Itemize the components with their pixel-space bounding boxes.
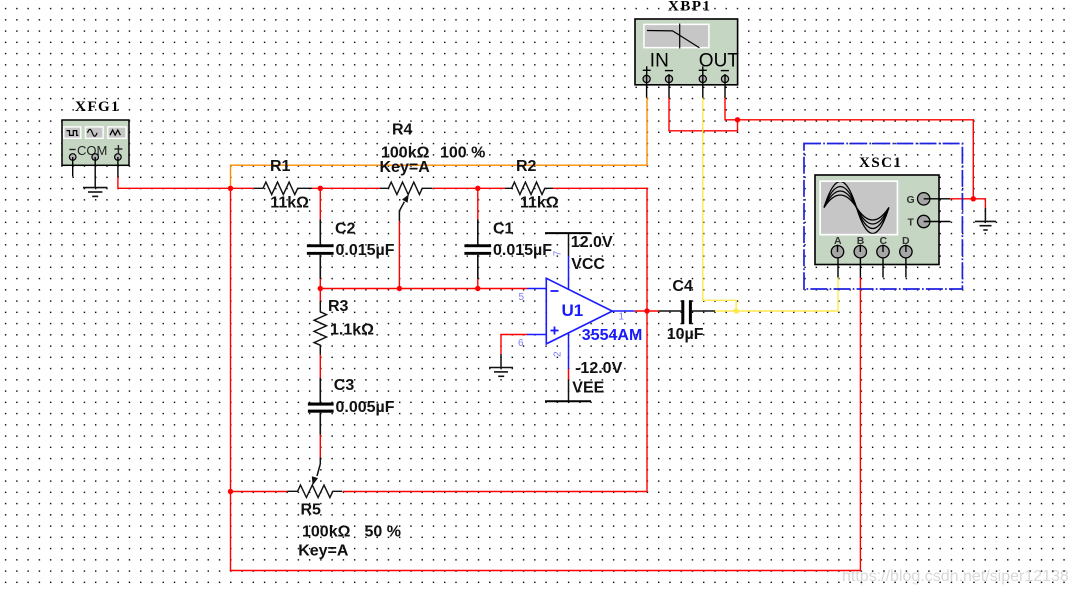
op-amp pin 1 output lead (blue) [612,310,634,312]
potentiometer R4 body [380,182,433,194]
potentiometer R5 body [287,485,342,497]
svg-text:5: 5 [519,292,525,303]
op-amp pin 7 VCC lead [568,233,570,290]
svg-text:Key=A: Key=A [380,159,431,176]
junction R1/C2 [318,186,323,191]
wire: R1 to R4 (red) [312,187,381,189]
wire: C2 bottom to mid row (red) [319,278,321,288]
svg-text:T: T [908,217,915,229]
svg-text:0.005µF: 0.005µF [336,399,395,416]
XFG1 + pin stub [117,157,119,177]
svg-text:-12.0V: -12.0V [575,360,622,377]
svg-text:R1: R1 [270,158,291,175]
junction XBP1 IN-/OUT- [735,117,740,122]
svg-text:R5: R5 [301,502,322,519]
svg-text:C2: C2 [335,221,356,238]
svg-text:6: 6 [518,338,524,349]
resistor R3 [314,301,326,355]
svg-text:1.1kΩ: 1.1kΩ [330,322,374,339]
XSC1 D pin stub [905,258,907,278]
svg-text:C4: C4 [672,278,693,295]
wire: XBP1 IN- down and over (red) [669,98,738,131]
wire: mid row to op-amp pin 5 (red) [320,288,527,290]
VCC supply bar [545,232,591,234]
svg-text:10µF: 10µF [667,326,704,343]
wire: C2 top lead from top row (red) [319,188,321,220]
wire: XFG1 + output to node A junction (red) [118,177,231,189]
capacitor C1 [464,220,491,279]
svg-text:50 %: 50 % [365,524,401,541]
XSC1 B pin stub [859,258,861,278]
XSC1 T terminal [908,215,951,228]
op-amp pin 2 VEE lead [568,333,570,402]
svg-text:11kΩ: 11kΩ [270,195,309,212]
XBP1 terminals [643,75,729,82]
svg-text:R2: R2 [516,158,537,175]
svg-text:VEE: VEE [572,380,604,397]
XSC1 channel terminals A B C D [831,235,912,258]
wire: XBP1 OUT- down, right to XSC1 G junction (red) [725,98,973,199]
wire: R4 wiper to mid row (red) [398,221,400,289]
capacitor C2 [307,220,334,279]
wire: R2 to right column (red) [553,187,648,189]
svg-text:XSC1: XSC1 [859,155,903,171]
wire: R3 bottom to C3 top (red) [319,355,321,379]
capacitor C3 [308,378,334,435]
op-amp inverting input mark [551,290,559,292]
svg-text:3554AM: 3554AM [582,327,642,344]
svg-text:VCC: VCC [571,256,605,273]
wire: bottom row to XSC1 B channel (red) [230,277,861,571]
op-amp U1 triangle [546,278,612,344]
op-amp pin 6 lead (blue) [527,334,546,336]
svg-text:C3: C3 [334,377,355,394]
junction yellow C4/XBP1 OUT+ [734,308,739,313]
junction R5 left [228,489,233,494]
svg-text:11kΩ: 11kΩ [520,195,559,212]
XFG1 - pin stub [72,157,74,177]
svg-text:C1: C1 [493,221,514,238]
wire: R5 right lead to right column (red) [343,491,647,493]
svg-text:2: 2 [553,351,564,357]
svg-text:100 %: 100 % [440,145,485,162]
op-amp pin 5 lead (blue) [527,288,546,290]
wire: XSC1 G terminal to ground junction (red) [950,199,985,209]
junction C1 mid row [475,286,480,291]
resistor R1 [254,182,312,194]
oscilloscope XSC1 body [815,175,939,265]
wire: R5 left lead to left column (red) [231,491,288,493]
function generator XFG1 body [62,120,129,165]
svg-text:0.015µF: 0.015µF [336,242,395,259]
svg-text:R4: R4 [392,122,413,139]
svg-text:1: 1 [619,312,625,323]
wire: yellow C4 right to XSC1 A channel [715,277,839,311]
resistor R2 [505,182,553,194]
junction op-amp output [644,308,649,313]
XSC1 C pin stub [882,258,884,278]
junction R4 wiper mid row [397,286,402,291]
ground below XFG1 COM [83,188,107,197]
svg-text:C: C [880,235,888,247]
junction XSC1 G/ground [971,196,976,201]
XSC1 A pin stub [837,258,839,278]
wire: C1 top lead from top row (red) [477,188,479,220]
svg-text:100kΩ: 100kΩ [302,524,351,541]
XFG1 terminals [69,154,121,161]
junction C2/R3 mid row [318,286,323,291]
svg-text:IN: IN [650,50,669,71]
potentiometer R4 wiper arrow [399,194,408,221]
capacitor C4 [659,300,715,324]
junction node A (input) [228,186,233,191]
oscilloscope XSC1 selection box (dashed) [804,144,962,290]
potentiometer R5 wiper arrow [312,458,321,486]
svg-text:B: B [857,235,865,247]
XFG1 COM pin stub [94,157,96,188]
ground at XSC1 G terminal [975,208,996,230]
wire: mid row below junction to R3 top (red) [319,289,321,301]
XSC1 screen waveforms [824,181,889,233]
svg-text:OUT: OUT [699,50,740,71]
wire: yellow XBP1 OUT+ down to output row [703,98,736,312]
junction R4/C1/R2 [475,186,480,191]
svg-text:D: D [902,235,910,247]
op-amp non-inverting input mark [551,327,559,335]
svg-text:XBP1: XBP1 [668,0,712,15]
svg-text:U1: U1 [562,301,584,320]
XFG1 COM text and polarity marks [69,143,122,158]
XBP1 IN OUT text [650,50,740,71]
XBP1 pin stubs [647,74,725,98]
XSC1 G terminal [907,193,951,206]
svg-text:A: A [834,235,842,247]
wire: op-amp pin 6 to ground (red) [501,335,527,355]
svg-text:7: 7 [552,250,563,256]
wire: right column vertical, top row to R5 row (red) [646,188,648,492]
svg-text:12.0V: 12.0V [571,234,613,251]
wire: C3 bottom lead to R5 wiper (red) [319,434,321,458]
wire: orange from node A up and across to XBP1 IN+ [231,98,648,189]
ground below op-amp pin 6 [489,354,513,376]
wire: C1 bottom to mid row (red) [477,278,479,288]
svg-text:0.015µF: 0.015µF [493,242,552,259]
wire: top row node A to R1 (red) [231,187,255,189]
Bode plotter XBP1 body [635,19,738,85]
svg-text:R3: R3 [328,298,349,315]
wire: op-amp output to C4 (red) [635,310,659,312]
svg-text:XFG1: XFG1 [75,99,120,115]
wire: R4 to R2 (red) [433,187,505,189]
VEE supply bar [545,400,591,402]
svg-text:G: G [907,194,915,206]
XBP1 polarity marks [643,66,729,74]
wire: left column vertical, node A down to bottom row (red) [230,188,232,571]
svg-text:Key=A: Key=A [298,543,349,560]
